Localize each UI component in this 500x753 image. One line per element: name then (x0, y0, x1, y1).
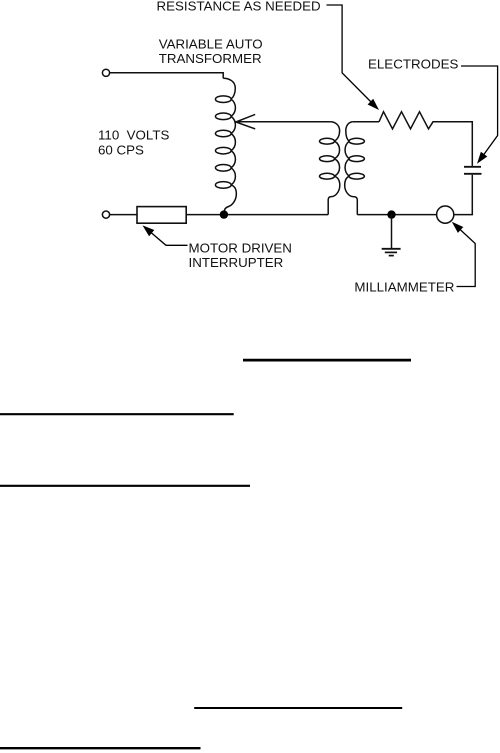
autotransformer L1 entry curve (223, 78, 235, 99)
junction dot left (220, 210, 228, 218)
transformer primary arcs (335, 141, 340, 159)
wire box to primary bottom (186, 214, 328, 216)
wire wiper to transformer primary (236, 121, 331, 123)
autotransformer L1 arcs (231, 99, 235, 116)
svg-text:MILLIAMMETER: MILLIAMMETER (354, 279, 454, 294)
transformer secondary exit (345, 176, 358, 214)
underline 3 (0, 485, 250, 487)
svg-text:INTERRUPTER: INTERRUPTER (189, 255, 284, 270)
arrowhead to capacitor (477, 152, 487, 164)
ground stem (391, 215, 393, 248)
autotransformer L1 exit curve (224, 185, 236, 213)
leader MOTOR DRIVEN INTERRUPTER (145, 227, 188, 245)
svg-text:RESISTANCE AS NEEDED: RESISTANCE AS NEEDED (157, 0, 321, 13)
underline 5 (0, 747, 201, 749)
resistor R zigzag (379, 112, 472, 166)
underline 4 (194, 707, 402, 709)
transformer secondary arcs (345, 141, 349, 159)
leader RESISTANCE AS NEEDED (327, 5, 378, 108)
transformer primary loop ellipses (320, 138, 335, 144)
svg-text:110 VOLTS: 110 VOLTS (98, 128, 169, 143)
milliammeter M circle (437, 206, 454, 223)
transformer secondary loop ellipses (349, 138, 364, 144)
svg-text:60 CPS: 60 CPS (98, 142, 144, 157)
leader MILLIAMMETER (454, 223, 476, 286)
wire terminal to interrupter box (110, 214, 137, 216)
terminal T2 (bottom left) (102, 211, 109, 218)
transformer primary exit (328, 176, 340, 214)
svg-text:VARIABLE AUTO: VARIABLE AUTO (159, 37, 263, 52)
underline 2 (0, 413, 234, 415)
arrowhead to resistor (368, 99, 379, 110)
svg-text:TRANSFORMER: TRANSFORMER (159, 51, 262, 66)
svg-text:ELECTRODES: ELECTRODES (368, 57, 458, 72)
leader ELECTRODES (461, 66, 498, 161)
interrupter box (137, 207, 186, 224)
wiper arrow barbs (236, 114, 255, 128)
ground bars (382, 248, 401, 250)
wire secondary top to resistor (353, 121, 379, 123)
wire milliammeter to secondary bottom (357, 214, 436, 216)
terminal T1 (top left) (102, 69, 109, 76)
capacitor plates (electrodes) (464, 166, 481, 168)
underline 1 (243, 359, 411, 362)
arrowhead to interrupter box (143, 225, 155, 236)
junction dot right (387, 210, 395, 218)
autotransformer L1 loop ellipses (215, 96, 231, 103)
transformer secondary entry curve (346, 122, 353, 141)
transformer primary entry curve (331, 122, 340, 141)
arrowhead to milliammeter (452, 222, 464, 233)
svg-text:MOTOR DRIVEN: MOTOR DRIVEN (189, 240, 292, 255)
wire top left horizontal (110, 73, 224, 78)
wire capacitor down to bottom (454, 175, 473, 215)
